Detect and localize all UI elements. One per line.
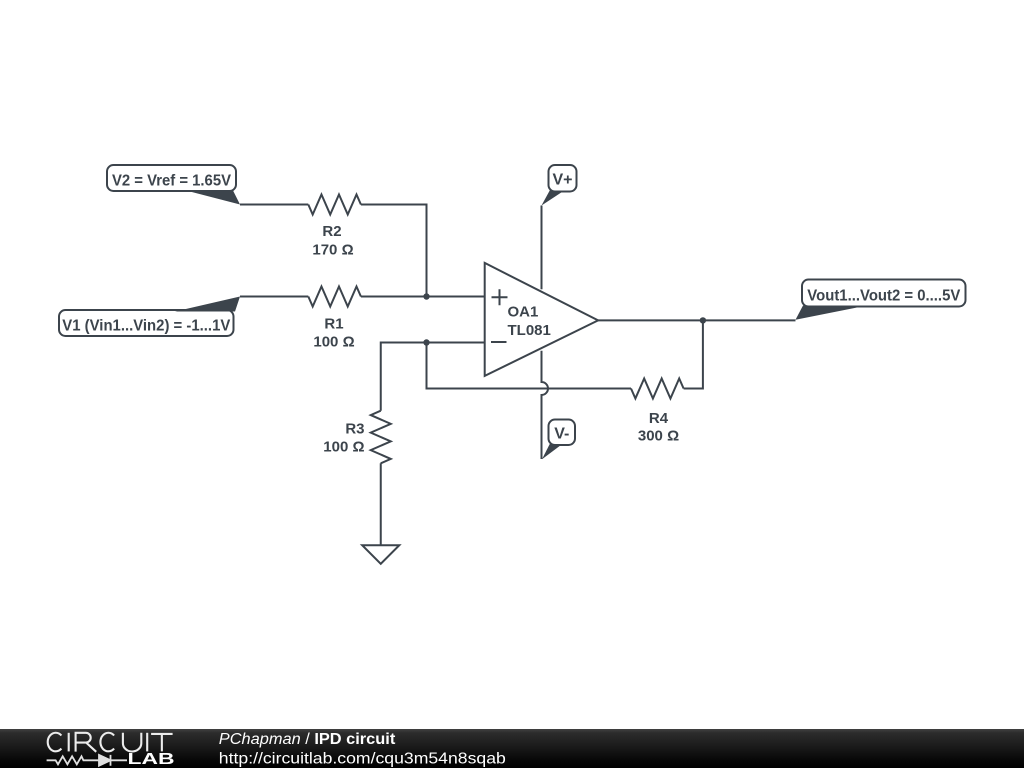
svg-text:OA1: OA1 bbox=[508, 304, 539, 321]
flag Vout1...Vout2 = 0....5V bbox=[796, 280, 966, 320]
op-amp label OA1 TL081 bbox=[508, 304, 551, 340]
wire node B to R4 (feedback) bbox=[427, 343, 632, 389]
op-amp U1 OA1 body bbox=[485, 263, 598, 376]
wire V1 flag to R1 bbox=[240, 296, 308, 298]
footer title PChapman / IPD circuit bbox=[219, 731, 395, 748]
svg-text:LAB: LAB bbox=[128, 751, 175, 768]
wire R1 to op-amp noninverting input bbox=[361, 296, 485, 298]
CircuitLab logo wordmark LAB bbox=[128, 751, 175, 768]
svg-text:V+: V+ bbox=[552, 172, 572, 189]
resistor R4 value label bbox=[638, 410, 679, 445]
resistor R3 bbox=[371, 411, 391, 464]
wire V+ flag to op-amp bbox=[541, 206, 543, 290]
node A junction dot bbox=[423, 293, 429, 299]
wire R4 to output node bbox=[684, 320, 703, 388]
node B junction dot bbox=[423, 339, 429, 345]
svg-text:R4: R4 bbox=[649, 410, 669, 427]
svg-text:V2 = Vref = 1.65V: V2 = Vref = 1.65V bbox=[112, 173, 231, 190]
svg-text:100 Ω: 100 Ω bbox=[313, 334, 354, 351]
footer url bbox=[219, 751, 506, 768]
svg-text:300 Ω: 300 Ω bbox=[638, 428, 679, 445]
flag V- bbox=[542, 420, 575, 460]
svg-text:R2: R2 bbox=[322, 223, 341, 240]
svg-text:V1 (Vin1...Vin2) = -1...1V: V1 (Vin1...Vin2) = -1...1V bbox=[62, 318, 230, 335]
resistor R1 value label bbox=[313, 316, 354, 351]
resistor R2 bbox=[308, 195, 361, 215]
wire node B to R3 bbox=[381, 343, 427, 411]
flag V2 = Vref = 1.65V bbox=[107, 165, 240, 205]
svg-text:170 Ω: 170 Ω bbox=[312, 242, 353, 259]
svg-text:Vout1...Vout2 = 0....5V: Vout1...Vout2 = 0....5V bbox=[807, 288, 960, 305]
wire op-amp output to Vout flag bbox=[598, 319, 795, 321]
flag V+ bbox=[542, 165, 577, 206]
svg-text:R1: R1 bbox=[324, 316, 343, 333]
svg-text:http://circuitlab.com/cqu3m54n: http://circuitlab.com/cqu3m54n8sqab bbox=[219, 751, 506, 768]
resistor R4 bbox=[631, 379, 684, 399]
footer bar bbox=[0, 729, 1024, 768]
CircuitLab logo resistor-diode squiggle bbox=[47, 755, 127, 766]
svg-text:R3: R3 bbox=[345, 421, 364, 438]
wire R3 to ground bbox=[380, 463, 382, 545]
svg-text:TL081: TL081 bbox=[508, 322, 551, 339]
resistor R1 bbox=[308, 287, 361, 307]
ground bbox=[362, 545, 399, 564]
wire op-amp inverting input to node B bbox=[427, 342, 485, 344]
resistor R2 value label bbox=[312, 223, 353, 259]
svg-text:V-: V- bbox=[554, 426, 569, 443]
svg-text:PChapman / IPD circuit: PChapman / IPD circuit bbox=[219, 731, 395, 748]
flag V1 (Vin1...Vin2) = -1...1V bbox=[59, 297, 240, 337]
wire V2 flag to R2 bbox=[240, 204, 308, 206]
CircuitLab logo wordmark CIRCUIT bbox=[48, 733, 173, 752]
output node junction dot bbox=[700, 317, 706, 323]
resistor R3 value label bbox=[323, 421, 364, 456]
wire op-amp to V- flag (with hop over feedback wire) bbox=[542, 351, 549, 459]
wire R2 to node A bbox=[361, 205, 427, 297]
svg-text:100 Ω: 100 Ω bbox=[323, 439, 364, 456]
